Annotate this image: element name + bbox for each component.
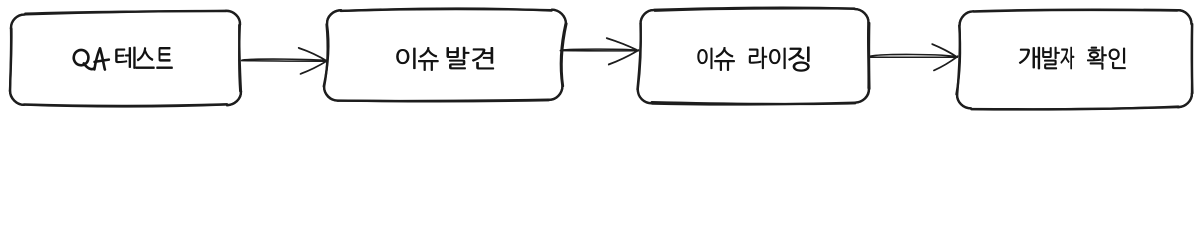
text3: label "이슈 라이징" xyxy=(698,47,810,72)
text1-kr: label "테스트" xyxy=(116,47,173,69)
text2: label "이슈 발견" xyxy=(397,47,494,71)
box4: step "개발자 확인" xyxy=(956,10,1192,110)
box1: step "QA 테스트" xyxy=(10,11,241,107)
label "QA" handwritten xyxy=(74,48,109,69)
arrow3: connector arrow xyxy=(870,44,958,70)
box3: step "이슈 라이징" xyxy=(637,8,869,105)
arrow2: connector arrow xyxy=(560,38,638,65)
text4: label "개발자 확인" xyxy=(1019,47,1125,70)
arrow1: connector arrow xyxy=(242,48,328,74)
box2: step "이슈 발견" xyxy=(324,8,567,101)
